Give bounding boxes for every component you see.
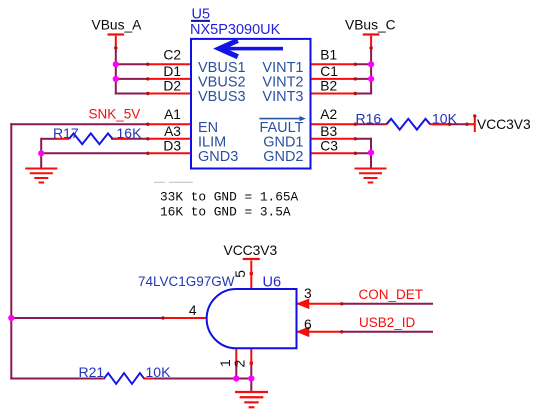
svg-text:FAULT: FAULT: [259, 120, 303, 136]
svg-text:5: 5: [233, 270, 248, 278]
svg-text:33K to GND = 1.65A: 33K to GND = 1.65A: [160, 189, 299, 204]
svg-text:A2: A2: [320, 107, 337, 122]
svg-text:VCC3V3: VCC3V3: [477, 117, 531, 132]
svg-text:U6: U6: [263, 274, 282, 290]
svg-text:CON_DET: CON_DET: [359, 287, 424, 302]
svg-text:C2: C2: [163, 47, 181, 62]
svg-text:74LVC1G97GW: 74LVC1G97GW: [138, 274, 235, 289]
svg-text:A3: A3: [164, 124, 181, 139]
svg-text:NX5P3090UK: NX5P3090UK: [190, 22, 281, 38]
svg-text:GND3: GND3: [198, 149, 238, 165]
svg-text:VINT3: VINT3: [262, 89, 303, 105]
svg-text:3: 3: [304, 286, 312, 301]
svg-text:R17: R17: [53, 125, 79, 141]
svg-text:VBus_C: VBus_C: [345, 17, 396, 32]
svg-text:10K: 10K: [432, 110, 458, 126]
svg-text:D3: D3: [163, 138, 181, 153]
svg-text:VBUS3: VBUS3: [198, 89, 246, 105]
svg-text:10K: 10K: [146, 364, 172, 380]
svg-text:VBus_A: VBus_A: [92, 17, 143, 32]
svg-text:C3: C3: [320, 138, 338, 153]
svg-text:USB2_ID: USB2_ID: [359, 315, 416, 330]
svg-text:VINT1: VINT1: [262, 60, 303, 76]
svg-text:SNK_5V: SNK_5V: [89, 107, 141, 122]
svg-text:EN: EN: [198, 120, 218, 136]
svg-text:6: 6: [304, 317, 312, 332]
svg-text:4: 4: [189, 303, 197, 318]
svg-text:VINT2: VINT2: [262, 75, 303, 91]
svg-text:A1: A1: [164, 107, 181, 122]
svg-text:16K: 16K: [117, 125, 143, 141]
svg-text:D1: D1: [163, 64, 181, 79]
svg-text:C1: C1: [320, 64, 338, 79]
svg-text:B3: B3: [320, 124, 337, 139]
svg-text:GND2: GND2: [263, 149, 303, 165]
svg-text:R16: R16: [356, 110, 382, 126]
svg-text:VBUS1: VBUS1: [198, 60, 246, 76]
svg-text:1: 1: [218, 359, 233, 367]
svg-text:B1: B1: [320, 47, 337, 62]
svg-text:D2: D2: [163, 79, 181, 94]
svg-text:VBUS2: VBUS2: [198, 75, 246, 91]
svg-text:B2: B2: [320, 79, 337, 94]
svg-text:VCC3V3: VCC3V3: [224, 243, 278, 258]
svg-text:R21: R21: [79, 364, 105, 380]
svg-text:16K to GND = 3.5A: 16K to GND = 3.5A: [160, 204, 291, 219]
svg-text:2: 2: [233, 360, 248, 368]
